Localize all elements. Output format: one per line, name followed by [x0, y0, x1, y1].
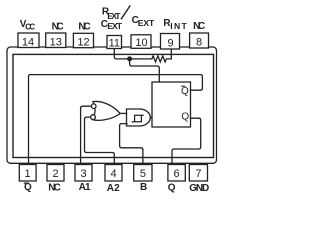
svg-text:A2: A2 — [107, 183, 120, 194]
svg-text:9: 9 — [167, 38, 173, 50]
wire and-gate output to flip-flop — [150, 117, 152, 119]
pin box 3 — [75, 165, 92, 182]
wire A1: pin 3 up to OR input 1 — [81, 106, 92, 164]
wire resistor to pin 9 stub — [170, 49, 172, 59]
svg-text:Q: Q — [181, 86, 189, 97]
svg-text:14: 14 — [22, 36, 34, 48]
slash of REXT/CEXT — [121, 5, 130, 19]
svg-text:2: 2 — [52, 168, 58, 180]
svg-text:7: 7 — [195, 168, 201, 180]
svg-text:12: 12 — [77, 36, 89, 48]
svg-text:EXT: EXT — [107, 11, 121, 21]
wire B: pin 5 up, left, up to AND lower input — [120, 124, 143, 165]
wire Q-bar: pin 1 up, across, down to FF right side — [29, 75, 203, 165]
svg-text:EXT: EXT — [138, 18, 155, 28]
pin box 2 — [47, 165, 64, 182]
pin box 11 — [107, 36, 122, 49]
svg-text:5: 5 — [140, 168, 146, 180]
svg-text:10: 10 — [135, 37, 147, 49]
overbar for pin1 Q — [24, 182, 29, 184]
IC body rectangle — [13, 54, 214, 157]
svg-text:Q: Q — [168, 183, 176, 194]
top pin labels — [20, 5, 205, 32]
svg-text:6: 6 — [174, 168, 180, 180]
node junction dot — [127, 56, 132, 61]
pin box 8 — [190, 33, 209, 48]
pin box 12 — [73, 33, 93, 47]
svg-text:NC: NC — [78, 22, 90, 33]
wire A2: pin 4 up, left jog, to OR input 2 — [85, 117, 115, 164]
flip-flop output labels — [181, 86, 189, 123]
pin box 9 — [161, 34, 180, 50]
svg-text:4: 4 — [110, 168, 116, 180]
overbar for FF Q-bar — [181, 85, 185, 87]
svg-text:CC: CC — [25, 23, 35, 32]
pin boxes row: top — [18, 33, 209, 181]
or-gate input bubble 2 — [91, 115, 96, 120]
pin box 4 — [105, 165, 122, 182]
svg-text:1: 1 — [25, 168, 31, 180]
bottom pin labels — [24, 182, 209, 194]
svg-text:13: 13 — [50, 36, 62, 48]
svg-text:NC: NC — [52, 22, 64, 33]
svg-text:Q: Q — [181, 112, 189, 123]
svg-text:NC: NC — [193, 21, 205, 32]
svg-text:11: 11 — [109, 38, 120, 50]
hysteresis symbol inside and-gate — [132, 115, 143, 122]
and-gate (Schmitt) body — [127, 109, 151, 126]
pin box 13 — [46, 33, 66, 48]
svg-text:B: B — [140, 182, 147, 193]
or-gate body (2 inverted inputs) — [92, 101, 120, 120]
flip-flop box U1 — [152, 82, 191, 127]
wire RC node to flip-flop top — [130, 59, 160, 82]
or-gate input bubble 1 — [91, 104, 96, 109]
wire Q: FF right to pin 6 — [172, 118, 201, 164]
pin box 14 — [18, 33, 39, 48]
pin box 7 — [189, 165, 207, 182]
wire pin 11 stub to RC node — [114, 48, 152, 59]
wire or-gate output to and-gate — [120, 112, 126, 114]
svg-text:3: 3 — [80, 168, 86, 180]
svg-text:A1: A1 — [79, 182, 91, 193]
pin box 1 — [19, 165, 36, 182]
svg-text:EXT: EXT — [107, 21, 123, 31]
resistor R (timing, zigzag) — [152, 56, 171, 62]
pin box 5 — [134, 165, 152, 182]
package outline (outer rounded rect behind pin boxes) — [7, 47, 217, 163]
svg-text:NC: NC — [48, 182, 61, 193]
pin box 6 — [168, 165, 185, 182]
pin numbers top row — [22, 36, 202, 180]
svg-text:8: 8 — [196, 36, 202, 48]
pin box 10 — [131, 35, 151, 49]
svg-text:GND: GND — [189, 183, 209, 194]
